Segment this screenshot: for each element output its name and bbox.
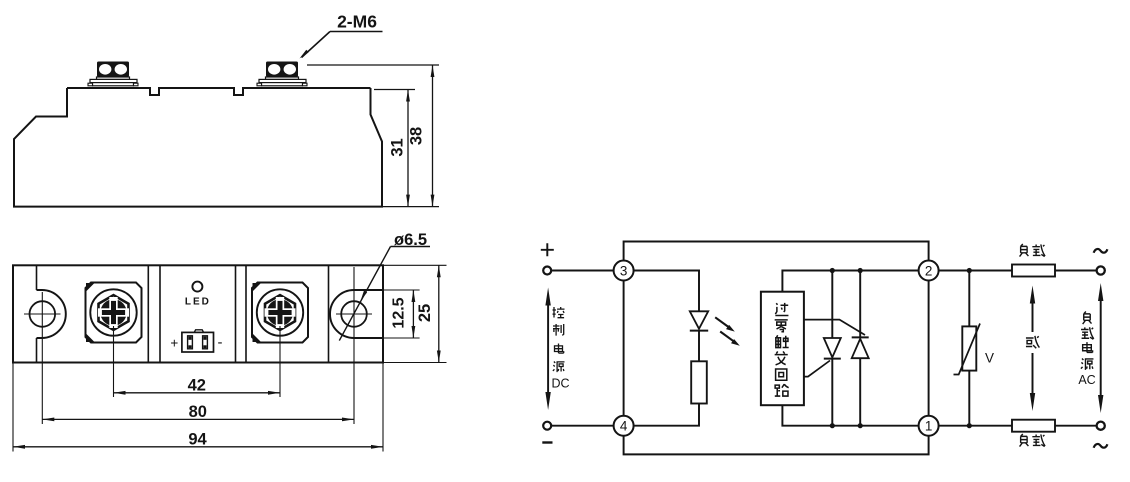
module body outline (front view): [13, 265, 383, 362]
wire box top to inner rail and to node2: [782, 271, 918, 292]
svg-text:2-M6: 2-M6: [337, 12, 377, 32]
svg-text:2: 2: [925, 264, 933, 279]
AC terminal top: [1094, 249, 1108, 275]
svg-text:80: 80: [189, 403, 207, 421]
right mounting tab: [330, 290, 383, 338]
node 2: [919, 261, 939, 281]
light emission arrows: [715, 317, 740, 346]
wire node2 to node1: [928, 281, 930, 416]
label 控制电源DC: [551, 307, 569, 391]
junction dot top-left SCR: [830, 268, 835, 273]
dimension 31: [374, 90, 439, 207]
wire LED to resistor: [698, 331, 700, 362]
svg-text:+: +: [170, 336, 178, 351]
right mounting hole: [341, 301, 367, 327]
screw terminal right: [252, 283, 308, 343]
node 4: [614, 416, 634, 436]
dimension 42: [114, 326, 281, 397]
junction dot bottom-left SCR: [830, 423, 835, 428]
bolt terminal left (nut + washers): [88, 62, 138, 86]
junction dot varistor top: [967, 268, 972, 273]
wire node1 to varistor junction and load: [939, 425, 1012, 427]
control supply double arrow: [545, 288, 550, 411]
wire node3 to LED branch: [634, 271, 699, 312]
junction dot varistor bottom: [967, 423, 972, 428]
section divider pair left-center: [148, 265, 160, 362]
svg-text:4: 4: [620, 419, 628, 434]
OR double arrow between loads: [1026, 286, 1039, 412]
junction dot bottom-right SCR: [858, 423, 863, 428]
section divider left: [36, 265, 38, 362]
LED diode: [690, 311, 708, 330]
varistor V: [954, 271, 995, 426]
wire resistor to node 4: [634, 404, 699, 426]
svg-text:94: 94: [188, 430, 207, 448]
terminal + (DC input positive): [541, 243, 554, 274]
wire node2 to varistor junction and load: [939, 270, 1012, 272]
outer top rail node3 to node2: [624, 242, 929, 261]
svg-text:38: 38: [408, 127, 426, 145]
heatsink body outline (side view): [14, 88, 382, 207]
outer bottom rail node4 to node1: [624, 436, 929, 455]
left mounting hole: [30, 301, 56, 327]
svg-text:12.5: 12.5: [391, 297, 408, 328]
AC terminal bottom: [1094, 422, 1108, 448]
junction dot top-right SCR: [858, 268, 863, 273]
svg-text:DC: DC: [551, 377, 569, 391]
node 1: [919, 416, 939, 436]
svg-text:-: -: [218, 334, 223, 351]
left mounting tab: [37, 290, 66, 338]
svg-text:1: 1: [925, 419, 933, 434]
AC supply double arrow: [1098, 283, 1103, 413]
wire box bottom to inner rail and to node1: [782, 405, 918, 426]
thyristor right (conducts up): [804, 271, 869, 426]
thyristor left (conducts down): [804, 271, 841, 426]
section divider right: [328, 265, 330, 362]
wire load bottom to terminal: [1055, 425, 1097, 427]
section divider pair right-center: [236, 265, 247, 362]
zero-crossing trigger circuit box: [761, 292, 804, 406]
label 过零触发回路: [775, 303, 789, 396]
bolt terminal right (nut + washers): [257, 62, 307, 86]
svg-text:42: 42: [188, 376, 206, 394]
dimension 80: [42, 403, 354, 421]
dimension 38: [307, 65, 439, 207]
svg-text:LED: LED: [185, 297, 211, 308]
wire - terminal to node 4: [551, 425, 613, 427]
load resistor top: [1012, 244, 1055, 277]
svg-text:AC: AC: [1078, 373, 1095, 387]
svg-text:25: 25: [416, 304, 434, 322]
label 2-M6 with leader arrow: [300, 12, 383, 59]
load resistor bottom: [1012, 420, 1055, 447]
dimension 94: [13, 364, 383, 452]
LED indicator: [185, 282, 211, 308]
dimension 12.5: [383, 290, 420, 338]
wire + terminal to node 3: [551, 270, 613, 272]
label 负载电源AC: [1078, 312, 1095, 388]
wire node3 to node4: [623, 281, 625, 416]
terminal - (DC input negative): [542, 422, 552, 443]
wire load top to terminal: [1055, 270, 1097, 272]
dimension 25: [383, 265, 447, 362]
node 3: [614, 261, 634, 281]
input connector: [170, 330, 222, 352]
svg-text:3: 3: [620, 264, 628, 279]
label diameter 6.5 with leader: [339, 231, 430, 341]
svg-text:V: V: [985, 351, 994, 366]
screw terminal left: [86, 283, 142, 343]
svg-text:31: 31: [389, 138, 407, 156]
resistor (input series): [691, 361, 707, 403]
